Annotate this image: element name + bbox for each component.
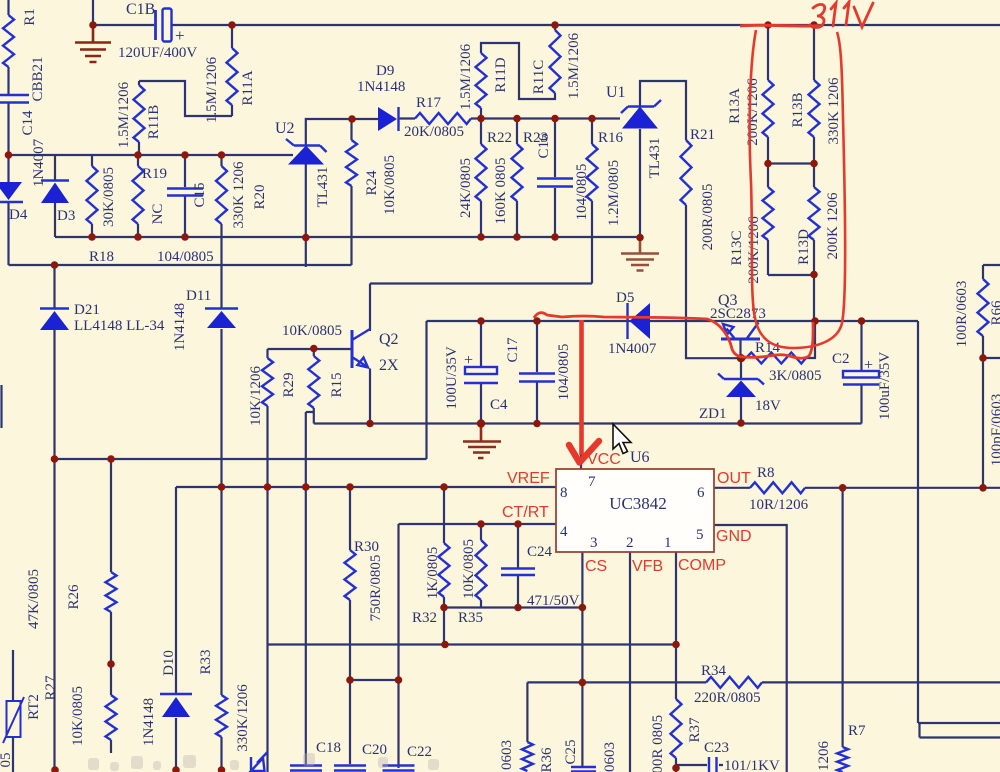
svg-text:1.5M/1206: 1.5M/1206	[204, 56, 220, 123]
wire R21 stem down to Q3 base node	[686, 205, 741, 358]
wire top-left stub into rail	[92, 0, 94, 25]
resistor R21 200R/0805	[681, 140, 692, 205]
wire y=644.5 rail	[268, 643, 677, 645]
wire drop x=426.5 to y=459	[425, 321, 427, 459]
svg-text:1.5M/1206: 1.5M/1206	[458, 43, 474, 110]
capacitor C24 471/50V	[501, 569, 535, 576]
wire U2 cathode up to D9 node	[306, 119, 378, 146]
wire RT2 stems	[12, 650, 14, 772]
wire y=237 rail	[55, 236, 640, 238]
wire VCC pin7 vertical	[580, 321, 582, 469]
wire R13 mid jumper	[768, 162, 814, 164]
wire R18 stems	[91, 155, 93, 237]
resistor R32 1K/0805	[439, 543, 450, 597]
svg-text:OUT: OUT	[717, 470, 751, 487]
svg-text:D10: D10	[161, 650, 177, 676]
svg-text:R24: R24	[364, 170, 380, 196]
svg-text:C2: C2	[832, 351, 850, 367]
resistor R26 47K/0805	[106, 572, 117, 612]
resistor R22 24K/0805	[476, 144, 487, 201]
wire R15 stems	[313, 349, 315, 424]
wire R13 bottom jumper and drop to VCC rail	[768, 275, 814, 321]
TL431 U1	[622, 107, 658, 129]
transistor Q3 2SC2873	[721, 338, 760, 341]
svg-text:30K/0805: 30K/0805	[101, 167, 117, 227]
svg-text:C15: C15	[192, 182, 208, 207]
resistor R27 10K/0805	[106, 695, 117, 740]
diode D9 1N4148	[378, 107, 397, 131]
wire x=918 drop and bottom right corner	[918, 321, 1000, 738]
svg-text:R37: R37	[687, 717, 703, 743]
diode D10 1N4148	[160, 693, 192, 695]
wire C22 vertical x=398.5	[397, 524, 399, 768]
capacitor C14	[0, 95, 29, 103]
resistor R19 NC	[133, 166, 144, 224]
svg-text:2SC2873: 2SC2873	[710, 306, 766, 322]
svg-text:1.5M/1206: 1.5M/1206	[116, 81, 132, 148]
wire R22 stems	[480, 119, 482, 238]
wire y=118.5 rail D9 to U1	[398, 117, 620, 119]
wire top rail 311V	[93, 24, 1000, 26]
svg-text:NC: NC	[150, 204, 166, 225]
wire y=423.5 rail	[314, 422, 862, 424]
wire stub at R66 bottom node	[983, 357, 1000, 359]
wire R32 vertical	[443, 487, 445, 645]
resistor R37 200R 0805	[671, 699, 682, 758]
capacitor C2 100uF/35V	[843, 371, 879, 378]
wire R13D stems	[813, 164, 815, 276]
resistor R36	[522, 742, 533, 771]
svg-text:10R/1206: 10R/1206	[749, 497, 809, 513]
wire Q2 emitter vertical	[369, 369, 371, 424]
wire left edge fragment	[0, 385, 2, 428]
svg-text:TL431: TL431	[315, 167, 331, 208]
svg-text:D11: D11	[186, 288, 211, 304]
svg-text:200K 1206: 200K 1206	[825, 192, 841, 260]
svg-text:10K/0805: 10K/0805	[70, 686, 86, 746]
capacitor C22	[383, 766, 415, 771]
wire y=283.5 rail	[370, 282, 592, 284]
svg-text:C25: C25	[563, 739, 579, 764]
capacitor C25	[571, 767, 596, 772]
resistor R1	[3, 15, 14, 67]
svg-text:18V: 18V	[755, 398, 781, 414]
wire R66 branch	[983, 265, 1000, 488]
wire left column x=8.5 (R1/C14/D4 chain)	[7, 0, 9, 265]
resistor R13D 200K 1206	[809, 187, 820, 240]
svg-text:1N4148: 1N4148	[357, 79, 405, 95]
svg-text:C20: C20	[362, 742, 387, 758]
svg-text:1N4148: 1N4148	[172, 303, 188, 351]
wire R30/C20 vertical x=350	[349, 487, 351, 764]
svg-text:1: 1	[664, 535, 672, 551]
annotation thick red arrow to VCC	[579, 320, 584, 455]
resistor R17 20K/0805	[415, 113, 471, 124]
svg-text:C16: C16	[536, 133, 552, 159]
svg-text:VREF: VREF	[507, 470, 550, 487]
svg-text:1206: 1206	[816, 741, 832, 772]
svg-text:160K 0805: 160K 0805	[493, 157, 509, 224]
diode D11 1N4148	[205, 307, 238, 309]
svg-text:104/0805: 104/0805	[157, 249, 214, 265]
wire R14 run and rise to VCC rail	[741, 321, 815, 358]
svg-text:LL4148 LL-34: LL4148 LL-34	[74, 318, 165, 334]
svg-text:7: 7	[588, 474, 596, 490]
svg-text:R11B: R11B	[146, 105, 162, 139]
resistor R7	[837, 747, 848, 772]
svg-text:CS: CS	[585, 558, 607, 575]
svg-text:20K/0805: 20K/0805	[404, 124, 464, 140]
wire jog R15 to U2 line	[306, 411, 314, 413]
svg-text:R11C: R11C	[531, 60, 547, 94]
svg-text:R35: R35	[458, 610, 483, 626]
resistor R20 330K 1206	[216, 166, 227, 224]
TL431 U2	[288, 146, 324, 165]
wire R11A to R11B L-link	[139, 81, 232, 116]
annotation 311V handwriting	[810, 2, 873, 28]
zener ZD1 18V	[718, 374, 764, 385]
resistor R29 10K/1206	[262, 358, 273, 406]
svg-text:U6: U6	[630, 449, 650, 466]
resistor R24 10K/0805	[346, 140, 357, 186]
wire R16 stem and drop to y283	[591, 119, 593, 284]
svg-text:CT/RT: CT/RT	[502, 504, 549, 521]
op-amp U6 UC3842 body	[556, 469, 714, 552]
capacitor C4 100U/35V	[465, 367, 497, 374]
svg-text:R30: R30	[354, 539, 379, 555]
resistor R15	[308, 356, 319, 408]
svg-text:D5: D5	[616, 290, 634, 306]
wire R11B stems	[138, 81, 140, 155]
svg-text:C22: C22	[407, 744, 432, 760]
resistor R8 10R/1206	[750, 482, 805, 493]
wire VREF rail y=487	[176, 486, 556, 488]
annotation red trace D5 to Q3 to R14	[534, 313, 813, 359]
svg-text:R13C: R13C	[729, 230, 745, 265]
capacitor C20	[334, 766, 366, 771]
partial symbol bottom-left	[251, 752, 268, 772]
wire Q2 base rail y=349	[268, 348, 352, 350]
wire y=265 rail	[9, 264, 352, 266]
svg-text:COMP: COMP	[678, 557, 726, 574]
svg-text:R32: R32	[412, 610, 437, 626]
svg-text:R11A: R11A	[240, 70, 256, 105]
wire GND pin run x=786.7	[713, 525, 787, 772]
watermark smudges	[88, 753, 439, 771]
resistor R30 750R/0805	[345, 550, 356, 600]
svg-text:R13B: R13B	[790, 92, 806, 127]
svg-text:4: 4	[560, 524, 568, 540]
svg-text:2X: 2X	[379, 357, 399, 374]
svg-text:R16: R16	[598, 130, 624, 146]
wire R13A stems	[767, 25, 769, 164]
svg-text:R21: R21	[690, 127, 715, 143]
wire R36 drop	[526, 682, 528, 742]
resistor R11C	[550, 30, 561, 93]
svg-text:D3: D3	[57, 208, 75, 224]
svg-text:C24: C24	[527, 544, 553, 560]
wire Q3 base stem	[739, 339, 741, 358]
resistor R13B 330K 1206	[809, 80, 820, 137]
wire D10 vertical x=176	[175, 487, 177, 772]
svg-text:D4: D4	[9, 207, 28, 223]
svg-text:330K/1206: 330K/1206	[235, 684, 251, 752]
diode D5 1N4007	[626, 303, 628, 339]
svg-text:C14: C14	[20, 110, 36, 136]
svg-text:10K/0805: 10K/0805	[461, 539, 477, 599]
wire y=321 VCC rail	[427, 320, 919, 322]
capacitor C1B 120UF/400V	[154, 10, 157, 40]
resistor R35 10K/0805	[476, 540, 487, 600]
wire VFB vertical x=630	[629, 552, 631, 772]
ground under U1	[621, 238, 659, 271]
svg-text:R22: R22	[487, 130, 512, 146]
svg-text:VCC: VCC	[587, 451, 621, 468]
svg-text:10K/0805: 10K/0805	[382, 155, 398, 215]
svg-text:RT2: RT2	[26, 694, 42, 720]
svg-text:1N4007: 1N4007	[608, 341, 657, 357]
wire R20/D11/R33 vertical x=221.5	[220, 155, 222, 772]
svg-text:6: 6	[697, 485, 705, 501]
svg-text:R8: R8	[757, 465, 775, 481]
svg-text:3: 3	[590, 535, 598, 551]
wire D3 branch	[54, 155, 56, 237]
svg-text:200R/0805: 200R/0805	[700, 184, 716, 251]
svg-text:CBB21: CBB21	[30, 56, 46, 101]
resistor R14 3K/0805	[746, 353, 806, 364]
svg-text:750R/0805: 750R/0805	[368, 555, 384, 622]
wire CT/RT rail y=524	[399, 523, 557, 525]
svg-text:330K 1206: 330K 1206	[231, 161, 247, 229]
svg-text:104/0805: 104/0805	[556, 344, 572, 401]
ground at C1B node	[75, 27, 111, 62]
svg-text:200K/1206: 200K/1206	[745, 78, 761, 146]
svg-text:VFB: VFB	[632, 558, 663, 575]
svg-text:GND: GND	[716, 528, 752, 545]
svg-text:R26: R26	[66, 584, 82, 610]
svg-text:R7: R7	[848, 723, 866, 739]
wire R24 stems	[350, 119, 352, 265]
svg-text:U2: U2	[275, 120, 295, 137]
svg-text:330K 1206: 330K 1206	[826, 77, 842, 145]
wire R11A stems	[231, 25, 233, 116]
svg-text:104/0805: 104/0805	[574, 164, 590, 221]
svg-text:10K/1206: 10K/1206	[248, 366, 264, 427]
wire ZD1 stems	[740, 358, 742, 423]
svg-text:D9: D9	[376, 63, 394, 79]
wire R13B stems	[813, 25, 815, 164]
svg-text:05: 05	[0, 753, 14, 768]
svg-text:C17: C17	[505, 337, 521, 363]
resistor R11A	[227, 48, 238, 105]
svg-text:R66: R66	[989, 300, 1000, 326]
wire C23 stubs	[676, 764, 723, 766]
svg-text:R18: R18	[89, 249, 114, 265]
wire R19 stems	[137, 155, 139, 237]
svg-text:R13A: R13A	[727, 88, 743, 124]
wire CS vertical x=582.4 to C25	[581, 552, 583, 766]
svg-text:C18: C18	[316, 740, 341, 756]
svg-text:200K/1206: 200K/1206	[746, 216, 762, 284]
svg-text:UC3842: UC3842	[609, 494, 667, 513]
svg-text:R17: R17	[416, 95, 442, 111]
svg-text:+: +	[175, 26, 185, 45]
resistor R11D	[476, 53, 487, 108]
svg-text:R19: R19	[142, 166, 167, 182]
svg-text:1N4148: 1N4148	[141, 698, 157, 746]
capacitor C16 104/0805	[537, 179, 573, 187]
svg-text:101/1KV: 101/1KV	[724, 758, 780, 772]
annotation red loop around R13 group	[750, 30, 846, 348]
svg-text:+: +	[464, 352, 473, 369]
svg-text:2: 2	[626, 535, 634, 551]
svg-text:1K/0805: 1K/0805	[425, 547, 441, 600]
wire R29 vertical x=267.5	[266, 349, 268, 487]
wire U2 stem down to C18 line x=305.8	[305, 164, 307, 765]
annotation red overlay on 311V rail	[740, 24, 823, 28]
resistor R34 220R/0805	[706, 677, 762, 688]
svg-text:R11D: R11D	[493, 57, 509, 92]
svg-text:R36: R36	[539, 747, 555, 772]
wire U1 stem to ground	[639, 129, 641, 238]
svg-text:200R 0805: 200R 0805	[650, 715, 666, 772]
wire OUT rail y=487.8	[714, 487, 1000, 489]
wire COMP vertical x=676	[675, 552, 677, 772]
wire R11C/R11D bracket	[481, 25, 555, 119]
svg-text:R13D: R13D	[796, 229, 812, 265]
mouse cursor	[613, 424, 631, 454]
svg-text:C23: C23	[704, 740, 729, 756]
svg-text:0603: 0603	[602, 742, 618, 772]
svg-text:8: 8	[560, 485, 568, 501]
capacitor C23 101/1KV	[709, 757, 717, 772]
svg-text:10K/0805: 10K/0805	[282, 323, 342, 339]
resistor R23 160K 0805	[512, 144, 523, 201]
wire C15 stems	[184, 155, 186, 237]
transistor Q2	[351, 330, 354, 368]
svg-text:220R/0805: 220R/0805	[694, 690, 761, 706]
svg-text:R1: R1	[22, 8, 38, 26]
wire y=682.4 rail with R34	[527, 681, 1000, 683]
resistor R11B	[134, 85, 145, 142]
capacitor C17 104/0805	[519, 374, 555, 382]
wire D21 vertical x=54.5	[53, 265, 55, 772]
wire jumper C20-C22	[350, 679, 399, 681]
wire y=607.5 rail	[444, 606, 582, 608]
wire C16 stems	[554, 119, 556, 238]
svg-text:24K/0805: 24K/0805	[458, 158, 474, 218]
wire R7 vertical x=842.6	[841, 488, 843, 747]
svg-text:C1B: C1B	[126, 1, 155, 18]
svg-text:TL431: TL431	[647, 138, 663, 179]
svg-text:R27: R27	[43, 675, 59, 701]
svg-text:1.2M/0805: 1.2M/0805	[606, 160, 622, 226]
wire R26/R27 vertical x=111	[110, 459, 112, 753]
svg-text:47K/0805: 47K/0805	[26, 569, 42, 629]
wire U1 cathode to R21	[640, 81, 686, 140]
svg-text:1.5M/1206: 1.5M/1206	[566, 32, 582, 99]
wire y=155 rail	[9, 154, 294, 156]
capacitor C15 104/0805	[167, 189, 203, 196]
svg-text:U1: U1	[606, 84, 626, 101]
svg-text:D21: D21	[74, 302, 100, 318]
ground under C4	[463, 425, 501, 458]
wire R23 stems	[516, 119, 518, 238]
svg-text:3K/0805: 3K/0805	[769, 368, 822, 384]
svg-text:+: +	[864, 357, 873, 374]
diode D3	[41, 179, 69, 181]
svg-text:1N4007: 1N4007	[31, 138, 47, 187]
diode D4 1N4007	[0, 182, 22, 200]
resistor R16 1.2M/0805	[587, 144, 598, 201]
resistor R66 100R/0603	[978, 279, 989, 336]
svg-text:471/50V: 471/50V	[527, 593, 580, 609]
wire R13C stems	[767, 164, 769, 276]
wire x=267.5 feedback vertical	[266, 487, 268, 772]
wire C2 stems	[860, 321, 862, 424]
resistor R33 330K/1206	[216, 695, 227, 737]
svg-text:ZD1: ZD1	[699, 406, 727, 422]
svg-text:100pF/0603: 100pF/0603	[989, 394, 1000, 467]
svg-text:R34: R34	[701, 663, 727, 679]
diode D21 LL4148	[40, 307, 69, 309]
resistor R13C 200K/1206	[763, 187, 774, 240]
svg-text:100uF/35V: 100uF/35V	[877, 352, 893, 421]
svg-text:120UF/400V: 120UF/400V	[118, 45, 197, 61]
wire C24 stems	[517, 524, 519, 608]
svg-text:100U/35V: 100U/35V	[444, 346, 460, 410]
svg-text:Q2: Q2	[379, 331, 399, 348]
capacitor C18	[290, 766, 322, 771]
wire C4 stems	[480, 321, 482, 424]
svg-text:0603: 0603	[499, 740, 515, 770]
resistor R18 30K/0805	[87, 166, 98, 224]
svg-text:R15: R15	[329, 372, 345, 397]
wire R35 stems	[480, 524, 482, 608]
svg-text:R29: R29	[281, 372, 297, 397]
svg-text:100R/0603: 100R/0603	[954, 281, 970, 348]
svg-text:R33: R33	[198, 649, 214, 674]
svg-text:C4: C4	[490, 397, 508, 413]
wire y=459 rail	[55, 458, 427, 460]
svg-text:5: 5	[696, 527, 704, 543]
resistor R13A 200K/1206	[763, 80, 774, 137]
thermistor RT2	[7, 701, 21, 737]
wire Q2 collector vertical	[369, 284, 371, 332]
wire C17 stems	[536, 321, 538, 424]
svg-text:R20: R20	[252, 184, 268, 209]
